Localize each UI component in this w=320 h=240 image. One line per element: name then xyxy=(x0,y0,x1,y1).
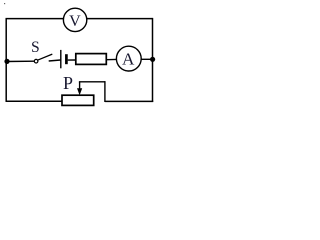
wire ammeter-to-right xyxy=(141,58,153,60)
stray dot artifact xyxy=(4,3,5,4)
battery cell xyxy=(61,50,67,68)
wire top border xyxy=(6,18,153,20)
wire resistor-to-ammeter xyxy=(106,58,116,60)
ammeter A xyxy=(116,46,141,71)
voltmeter V xyxy=(63,8,86,31)
wire bottom-left xyxy=(6,100,63,102)
wire battery-to-resistor xyxy=(68,59,76,61)
wire right border xyxy=(152,18,154,102)
wire switch-to-battery xyxy=(49,60,61,61)
rheostat wiper arrow xyxy=(77,82,82,95)
wire middle-left xyxy=(7,60,35,62)
wire loop-down xyxy=(104,81,106,102)
wire bottom-right xyxy=(105,100,153,102)
svg-text:V: V xyxy=(69,13,81,30)
wire left border xyxy=(5,19,7,102)
resistor R xyxy=(76,54,107,65)
svg-text:A: A xyxy=(122,50,135,69)
wire wiper-top xyxy=(79,81,105,83)
svg-text:P: P xyxy=(63,73,73,93)
node junction left xyxy=(4,59,9,64)
switch S xyxy=(34,54,52,63)
node junction right xyxy=(150,57,155,62)
rheostat P box xyxy=(62,95,94,105)
svg-text:S: S xyxy=(31,39,40,56)
